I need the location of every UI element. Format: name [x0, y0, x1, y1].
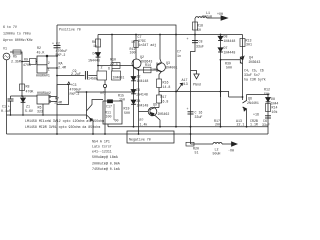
junction at 176,91.5: [175, 91, 177, 93]
svg-text:100: 100: [152, 68, 158, 72]
svg-text:1N4001: 1N4001: [113, 76, 125, 80]
wire R9 to opto: [36, 61, 37, 63]
junction at 22,61.5: [21, 61, 23, 63]
junction at 220.5,126.7: [220, 126, 222, 128]
svg-text:R9: R9: [24, 58, 28, 62]
junction at 133.5,126.7: [133, 126, 135, 128]
svg-text:D8: D8: [271, 97, 275, 101]
svg-text:+: +: [187, 37, 189, 41]
junction at 176,126.7: [175, 126, 177, 128]
svg-text:33uF: 33uF: [262, 123, 270, 127]
wire gate Q5: [139, 111, 149, 113]
resistor R17: [158, 92, 160, 96]
diode D9: [267, 95, 269, 127]
svg-text:R8: R8: [26, 85, 30, 89]
svg-text:Aprox 800Hz/KHz: Aprox 800Hz/KHz: [3, 38, 33, 42]
capacitor C9 input: [57, 75, 85, 77]
svg-text:C 16: C 16: [195, 111, 203, 115]
wire lower bus y128: [108, 127, 268, 134]
svg-text:2: 2: [101, 66, 103, 70]
svg-text:50uH: 50uH: [213, 152, 221, 156]
wire V1 down: [6, 60, 8, 134]
svg-text:+ C2: + C2: [52, 42, 60, 46]
resistor R15: [266, 104, 271, 112]
svg-text:6 to 7V: 6 to 7V: [3, 25, 17, 29]
svg-text:1.4k: 1.4k: [140, 122, 148, 126]
svg-text:51: 51: [195, 151, 199, 155]
zener Z1: [22, 96, 24, 98]
transistor Q3: [157, 63, 166, 72]
svg-text:7450utm@ 0.1mA: 7450utm@ 0.1mA: [92, 167, 120, 171]
svg-text:R10: R10: [110, 58, 116, 62]
junction at 220.5,34.5: [220, 34, 222, 36]
svg-text:22.1: 22.1: [110, 62, 118, 66]
wire left bottom rail y115: [7, 114, 87, 116]
svg-text:R17: R17: [161, 95, 167, 99]
svg-text:0.1uF: 0.1uF: [1, 109, 11, 113]
junction at 242.5,97: [242, 96, 244, 98]
svg-text:1N4148: 1N4148: [137, 104, 149, 108]
wire opto out mid: [47, 67, 57, 69]
svg-text:1.1R: 1.1R: [250, 123, 258, 127]
svg-text:16.8: 16.8: [161, 100, 169, 104]
op-amp U1A box: [97, 71, 107, 80]
svg-text:1: 1: [48, 68, 50, 72]
svg-text:e41--12311: e41--12311: [92, 150, 112, 154]
svg-text:C4, C5, C6: C4, C5, C6: [244, 69, 264, 73]
svg-text:14.8: 14.8: [163, 85, 171, 89]
resistor R3: [96, 39, 101, 47]
diode D4: [96, 53, 101, 57]
svg-text:10k: 10k: [272, 110, 278, 114]
svg-text:R16: R16: [163, 81, 169, 85]
svg-text:R14: R14: [272, 106, 278, 110]
wire main mid rail: [98, 34, 243, 36]
wire filter line x57: [56, 25, 58, 134]
svg-text:2.35M: 2.35M: [11, 60, 21, 64]
junction at 86.5,92: [86, 91, 88, 93]
svg-text:2: 2: [48, 61, 50, 65]
capacitor C6: [265, 115, 271, 117]
label LM notes: [25, 119, 104, 129]
network box C17 R11: [103, 101, 122, 124]
transistor Q1: [86, 92, 88, 119]
svg-text:1N4448: 1N4448: [88, 58, 100, 62]
svg-text:12000u to 700u: 12000u to 700u: [3, 32, 31, 36]
svg-text:50: 50: [197, 28, 201, 32]
junction at 57,134: [56, 133, 58, 135]
svg-text:D4: D4: [93, 52, 97, 56]
svg-text:1n: 1n: [177, 54, 181, 58]
transistor Q5 jfet: [148, 107, 157, 116]
svg-text:00: 00: [115, 119, 119, 123]
inductor L2: [191, 143, 214, 145]
svg-text:2N4401: 2N4401: [247, 101, 259, 105]
diode D8: [220, 35, 222, 98]
resistor R10: [112, 63, 120, 69]
svg-text:adj: adj: [100, 91, 106, 95]
svg-text:+OH: +OH: [217, 12, 223, 16]
wire emitter Q2 down: [138, 70, 140, 134]
junction at 112,34.5: [111, 34, 113, 36]
transistor Q2: [132, 59, 141, 68]
junction at 22,96: [21, 95, 23, 97]
svg-text:FKP-2: FKP-2: [70, 92, 80, 96]
wire opto out top: [47, 55, 57, 57]
svg-text:45.K: 45.K: [37, 51, 45, 55]
svg-text:500: 500: [226, 66, 232, 70]
label input notes: [3, 25, 33, 42]
svg-text:2N3643: 2N3643: [249, 60, 261, 64]
svg-text:R19: R19: [124, 107, 130, 111]
svg-text:R12: R12: [264, 88, 270, 92]
junction at 138.5,134: [138, 133, 140, 135]
svg-text:33uF: 33uF: [196, 45, 204, 49]
svg-text:V1: V1: [3, 47, 7, 51]
svg-text:150: 150: [119, 98, 125, 102]
inductor L1: [194, 17, 197, 19]
svg-text:Lato Csrsr: Lato Csrsr: [92, 145, 112, 149]
svg-text:Z2: Z2: [137, 75, 141, 79]
junction at 98,65.5: [97, 65, 99, 67]
resistor R5: [13, 50, 21, 54]
svg-text:100: 100: [130, 50, 136, 54]
wire R9 branch: [22, 61, 30, 63]
svg-text:PGnd: PGnd: [193, 83, 201, 87]
svg-text:Q5: Q5: [153, 103, 157, 107]
svg-text:1n34T adj: 1n34T adj: [139, 43, 157, 47]
junction at 190.5,134: [190, 133, 192, 135]
svg-text:#13: #13: [182, 82, 188, 86]
junction at 220.5,59.8: [220, 59, 222, 61]
wire collector bus y94.5: [247, 94, 269, 96]
svg-text:C7: C7: [177, 50, 181, 54]
svg-text:10: 10: [131, 40, 135, 44]
diode stack line x220: [220, 60, 222, 127]
wire bottom rail: [7, 133, 269, 135]
svg-text:2N5462: 2N5462: [158, 112, 170, 116]
wire box drop to y128: [107, 124, 109, 127]
svg-text:H08RA#1: H08RA#1: [36, 74, 50, 78]
svg-text:LM1458 MI1onW 3V12 opto 12Oohm: LM1458 MI1onW 3V12 opto 12Oohm at B5Oohm: [25, 119, 104, 123]
svg-text:R2: R2: [37, 46, 41, 50]
junction at 10.5,115: [10, 114, 12, 116]
svg-text:C1 +: C1 +: [2, 105, 10, 109]
svg-text:1N4448: 1N4448: [224, 39, 236, 43]
capacitor C8: [192, 40, 198, 42]
node adj circle: [103, 84, 106, 87]
resistor R8: [20, 84, 25, 91]
capacitor C2: [54, 45, 61, 47]
wire x112 drop: [111, 35, 113, 63]
svg-text:500: 500: [124, 111, 130, 115]
zener stack Z2: [133, 69, 135, 77]
wire top positive rail: [57, 25, 176, 127]
wire base Q3: [139, 69, 158, 71]
svg-text:+: +: [187, 107, 189, 111]
svg-text:Z4: Z4: [137, 99, 141, 103]
svg-text:1N4448: 1N4448: [224, 51, 236, 55]
svg-text:470K: 470K: [23, 63, 31, 67]
wire left low rail y96: [11, 95, 38, 97]
junction at 138.5,70: [138, 69, 140, 71]
svg-text:33uF: 33uF: [195, 115, 203, 119]
svg-text:FKP-2: FKP-2: [56, 53, 66, 57]
svg-text:Z3: Z3: [136, 88, 140, 92]
svg-text:Z1: Z1: [26, 105, 30, 109]
junction at 133.5,92: [133, 91, 135, 93]
svg-text:LM1458 MI9R 3V01 opto 93Oohm d: LM1458 MI9R 3V01 opto 93Oohm da 85Oohm: [25, 125, 100, 129]
diode marker C3: [68, 82, 71, 85]
svg-text:33uF 5x7: 33uF 5x7: [244, 73, 260, 77]
junction at 195,34.5: [194, 34, 196, 36]
junction at 160,34.5: [159, 34, 161, 36]
junction at 43,115: [42, 114, 44, 116]
transistor Q6: [229, 96, 243, 98]
zener stack Z3: [131, 90, 136, 94]
arrow +OUT: [221, 16, 228, 20]
svg-text:ha C3R 5y7k: ha C3R 5y7k: [244, 78, 266, 82]
junction at 190.5,126.7: [190, 126, 192, 128]
node opto top right: [46, 55, 48, 57]
svg-text:100: 100: [106, 114, 112, 118]
junction at 160,126.7: [159, 126, 161, 128]
svg-text:D8: D8: [224, 35, 228, 39]
junction at 136,34.5: [135, 34, 137, 36]
resistor R13: [242, 35, 244, 101]
svg-text:323: 323: [37, 110, 43, 114]
rheostat wiper diagonal: [176, 83, 182, 92]
resistor R14: [144, 67, 152, 73]
svg-text:1458A: 1458A: [88, 77, 98, 81]
svg-text:5.6V: 5.6V: [25, 109, 33, 113]
svg-text:1N4148: 1N4148: [136, 93, 148, 97]
junction at 57,75.5: [56, 75, 58, 77]
diode D7: [218, 48, 223, 52]
svg-text:2N4001: 2N4001: [166, 65, 178, 69]
wire base Q2: [98, 65, 134, 67]
svg-text:R18: R18: [197, 24, 203, 28]
wire D4 branch x98: [97, 35, 99, 72]
svg-text:1k: 1k: [93, 44, 97, 48]
svg-text:6: 6: [108, 67, 110, 71]
resistor R16: [157, 79, 162, 88]
zener stack Z4: [131, 100, 136, 104]
pot box RV1: [57, 85, 69, 105]
svg-text:301: 301: [246, 43, 252, 47]
source V1 circle: [3, 53, 10, 60]
junction at 176,34.5: [175, 34, 177, 36]
junction at 268,94.5: [267, 94, 269, 96]
resistor R18: [191, 18, 196, 144]
transistor Q4: [239, 57, 241, 64]
junction at 105,134: [104, 133, 106, 135]
capacitor C16: [188, 111, 194, 113]
svg-text:Q6: Q6: [248, 97, 252, 101]
junction at 57,68: [56, 67, 58, 69]
capacitor C1: [10, 96, 12, 99]
junction at 93,134: [92, 133, 94, 135]
svg-text:470K: 470K: [26, 90, 34, 94]
wire V1 to R5: [10, 52, 22, 96]
svg-text:D7: D7: [224, 46, 228, 50]
svg-text:1.4M: 1.4M: [54, 101, 62, 105]
svg-text:-OH: -OH: [228, 148, 234, 152]
junction at 220.5,91.5: [220, 91, 222, 93]
svg-text:N54 A 1P1: N54 A 1P1: [92, 140, 110, 144]
svg-text:C8: C8: [199, 40, 203, 44]
svg-text:200: 200: [215, 123, 221, 127]
svg-text:+C3: +C3: [71, 83, 77, 87]
arrow -OUT: [232, 142, 238, 146]
opto U3 box: [37, 95, 49, 104]
svg-text:2000utm@ 0.9mA: 2000utm@ 0.9mA: [92, 162, 120, 166]
svg-text:Negative 70: Negative 70: [129, 138, 151, 142]
svg-text:C17: C17: [106, 105, 112, 109]
junction at 23,115: [22, 114, 24, 116]
svg-text:4700uF: 4700uF: [70, 88, 82, 92]
svg-text:1N4148: 1N4148: [137, 79, 149, 83]
svg-text:R5: R5: [13, 55, 17, 59]
ground PGND: [191, 71, 197, 75]
svg-text:Positive 70: Positive 70: [59, 28, 81, 32]
svg-text:500uAmp@ 18mA: 500uAmp@ 18mA: [92, 155, 118, 159]
svg-text:2.4M: 2.4M: [58, 66, 66, 70]
op-amp U1B box: [112, 71, 121, 80]
resistor R9: [30, 59, 37, 65]
box negative module: [127, 131, 174, 143]
svg-text:R14: R14: [145, 63, 151, 67]
svg-text:22.1: 22.1: [237, 123, 245, 127]
svg-text:2.2uF: 2.2uF: [71, 72, 81, 76]
svg-text:332uH: 332uH: [202, 15, 212, 19]
resistor R12 collector Q2: [135, 35, 137, 60]
junction at 246.5,126.7: [246, 126, 248, 128]
svg-text:H08RA#2: H08RA#2: [37, 91, 51, 95]
junction at 57,56: [56, 55, 58, 57]
resistor R6 stub: [42, 104, 44, 115]
wire to pot wiper: [159, 92, 229, 98]
opto U2 box: [37, 56, 47, 73]
svg-text:+16: +16: [253, 113, 259, 117]
wire mid rail y92: [76, 91, 134, 93]
svg-text:50k: 50k: [264, 92, 270, 96]
